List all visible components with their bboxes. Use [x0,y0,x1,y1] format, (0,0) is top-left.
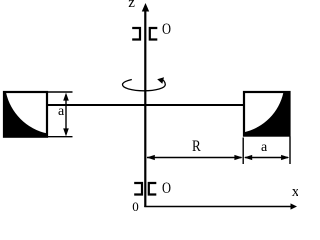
bearing bracket top left [132,28,140,40]
label R [192,139,201,155]
z axis [142,3,149,207]
bearing bracket bottom left [134,183,142,195]
label a right [261,141,267,155]
label O top [162,22,171,38]
label 0 origin [132,200,139,213]
extension line right square left [242,138,244,165]
bearing bracket top right [150,28,158,40]
dimension line a (under right square) [244,155,289,160]
rod (horizontal bar) [47,104,244,106]
bearing bracket bottom right [149,183,157,195]
label x [292,185,300,200]
extension line right square right [289,137,291,165]
label a left [58,105,64,119]
extension line a-top left [48,91,73,93]
left quarter-disc black fill [4,93,47,137]
extension line a-bottom left [48,136,73,138]
left square outline [4,92,47,137]
rotation arrow around z axis [123,77,166,91]
label O bottom [162,181,171,197]
right quarter-disc black fill [244,93,290,136]
dimension arrow a (left, vertical double arrow) [63,93,69,137]
x axis [144,203,297,209]
right square outline [244,92,290,136]
label z [128,0,135,11]
dimension line R (z axis to right square) [147,155,243,160]
